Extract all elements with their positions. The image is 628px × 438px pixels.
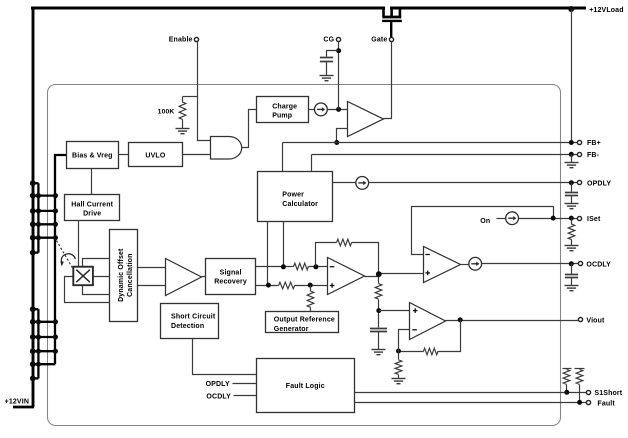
label U5 minus (425, 254, 430, 256)
terminal S1Short (586, 390, 590, 394)
svg-text:OCDLY: OCDLY (586, 262, 611, 269)
capacitor OCDLY (565, 275, 578, 278)
svg-text:FB+: FB+ (587, 140, 601, 147)
svg-text:OPDLY: OPDLY (206, 381, 230, 388)
hall plate ladder lower (32, 309, 56, 378)
label U6 minus (412, 329, 417, 331)
svg-text:Cancellation: Cancellation (127, 253, 134, 296)
svg-text:UVLO: UVLO (145, 152, 165, 159)
wire S1Short pullup bar (563, 368, 572, 370)
resistor R buffer gain (395, 360, 402, 374)
wire Charge Pump to source (309, 109, 315, 111)
wire +12V top rail right of MOSFET (390, 7, 586, 10)
svg-text:FB-: FB- (587, 152, 600, 159)
wire ref resistor to ORG (310, 308, 312, 312)
svg-text:Enable: Enable (169, 37, 193, 44)
resistor R feedback (337, 239, 352, 246)
wire OPDLY to Fault Logic (233, 383, 257, 385)
wire chopper phase D (65, 277, 111, 303)
wire driver lower input (337, 129, 348, 143)
capacitor OPDLY (565, 193, 578, 196)
junction Fault node (577, 400, 582, 405)
terminal FB- (577, 152, 581, 156)
wire buffer feedback down (438, 320, 461, 352)
wire Enable input (198, 42, 211, 141)
wire to error amp minus (309, 266, 328, 268)
wire +12V top rail left of MOSFET (31, 7, 385, 10)
wire OCDLY cap stub (571, 264, 573, 275)
junction ladder mid y=224.3 (36, 222, 41, 227)
wire divider mid stub (378, 300, 380, 328)
wire hall drive from Bias &amp; Vreg (55, 155, 66, 364)
block UVLO (129, 143, 183, 167)
block Hall Current Drive (65, 195, 120, 221)
wire CG down (338, 42, 340, 110)
ground ISet (565, 246, 579, 251)
junction minus node (313, 264, 318, 269)
label U5 plus (425, 271, 430, 276)
svg-text:Fault: Fault (597, 400, 615, 407)
junction ladder mid y=195.6 (36, 193, 41, 198)
junction ISet pin node (569, 216, 574, 221)
wire Gate to driver output (384, 42, 392, 119)
svg-text:Signal: Signal (220, 270, 242, 277)
wire divider to buffer plus (379, 310, 410, 312)
wire DOC out lower (138, 285, 166, 287)
svg-text:Viout: Viout (586, 318, 605, 325)
svg-text:Output Reference: Output Reference (274, 317, 335, 324)
wire PC bottom tap left (267, 222, 269, 286)
op-amp U5 OC comparator (424, 247, 461, 283)
op-amp U6 Viout buffer (410, 303, 446, 340)
svg-text:+12VLoad: +12VLoad (589, 7, 623, 14)
svg-text:Calculator: Calculator (282, 201, 318, 208)
wire PC bottom tap right (283, 222, 285, 267)
ground output filter (372, 350, 386, 355)
svg-text:Drive: Drive (83, 210, 101, 217)
svg-text:Pump: Pump (272, 113, 292, 120)
wire CG cap branch (327, 51, 339, 57)
wire error amp output (365, 277, 379, 284)
terminal CG (336, 37, 340, 41)
wire UVLO to AND (183, 154, 211, 156)
svg-text:Dynamic Offset: Dynamic Offset (118, 248, 125, 302)
wire +12VIN left bus (32, 7, 35, 407)
junction error output node (376, 271, 382, 277)
junction lower PC tap (266, 283, 271, 288)
svg-text:On: On (480, 218, 490, 225)
wire Fault line (355, 402, 587, 404)
block Output Reference Generator (266, 312, 339, 333)
wire chopper phase B (93, 276, 111, 278)
svg-text:S1Short: S1Short (594, 390, 622, 397)
mixer X1 chopper (73, 267, 93, 286)
junction divider mid (376, 308, 381, 313)
resistor R upper input (294, 263, 309, 270)
wire ISet resistor to ground (571, 240, 573, 246)
junction bus y=337.0 (30, 334, 36, 340)
ground under 100K (176, 129, 190, 134)
wire AND out to Charge Pump (242, 110, 257, 148)
junction bus y=351.2 (30, 348, 36, 354)
resistor R lower input (279, 282, 295, 289)
terminal Gate (389, 37, 393, 41)
wire fb node to minus input (399, 330, 410, 352)
junction ladder mid y=351.2 (36, 349, 41, 354)
junction buffer output (458, 317, 463, 322)
junction ladder mid y=337.0 (36, 334, 41, 339)
wire filter cap to ground (378, 332, 380, 350)
junction drive line y=210.9 (53, 208, 58, 213)
wire OCDLY to Fault Logic (234, 395, 257, 397)
resistor 100K (179, 102, 186, 119)
svg-text:Short Circuit: Short Circuit (171, 314, 216, 321)
wire +12VLoad sense drop (571, 10, 573, 143)
block Signal Recovery (206, 259, 256, 295)
junction plus node (308, 283, 313, 288)
wire Fault pullup stub (579, 385, 581, 403)
wire 100K top tie (183, 96, 198, 98)
op-amp U4 error amp (328, 258, 365, 295)
wire OCDLY cap to ground (571, 278, 573, 286)
wire chopper phase C (83, 286, 111, 295)
wire OPDLY line (369, 182, 578, 184)
resistor R reference (307, 291, 314, 307)
wire SCD to Fault Logic (193, 339, 257, 375)
junction drive line y=351.2 (53, 349, 58, 354)
wire comparator out (461, 264, 469, 266)
wire Fault pullup bar (575, 368, 585, 370)
wire S1Short pullup stub (566, 385, 568, 393)
wire comparator minus to ISet (412, 207, 554, 255)
junction bus y=183.2 (30, 180, 36, 186)
op-amp U3 preamp (166, 259, 202, 296)
current source OC delay (469, 257, 482, 270)
wire feedback left leg (316, 243, 337, 267)
ground OPDLY (565, 204, 579, 209)
junction bus y=252.6 (30, 250, 36, 256)
junction bus y=237.7 (30, 235, 36, 241)
svg-text:Power: Power (282, 191, 304, 198)
terminal Enable (194, 37, 198, 41)
junction driver input (336, 107, 341, 112)
block Power Calculator (258, 172, 333, 222)
resistor R divider top (375, 284, 382, 300)
op-amp U2 gate driver (348, 102, 384, 137)
junction FB+ to driver (334, 140, 339, 145)
wire OCDLY line (482, 263, 579, 265)
wire ref resistor stub (310, 286, 312, 292)
resistor R ISet (568, 224, 575, 239)
resistor R S1Short pullup (563, 369, 570, 384)
wire gain resistor stub (398, 352, 400, 360)
label U4 minus (330, 266, 335, 268)
wire preamp to Signal Recovery (202, 276, 206, 278)
wire CG cap to ground (326, 62, 328, 76)
hall plate ladder upper (32, 183, 56, 252)
svg-text:100K: 100K (158, 109, 175, 116)
block Short Circuit Detection (161, 304, 219, 339)
junction bus y=321.8 (30, 319, 36, 325)
capacitor CG (320, 58, 333, 62)
junction FB+ node (569, 140, 574, 145)
wire OPDLY cap stub (571, 183, 573, 192)
junction buffer fb node (396, 349, 401, 354)
wire Hall drive to chopper (78, 221, 80, 267)
svg-text:CG: CG (323, 37, 334, 44)
wire S1Short line (355, 392, 587, 394)
junction OPDLY node (569, 180, 574, 185)
junction FB- node (569, 152, 574, 157)
terminal OPDLY (577, 180, 581, 184)
wire FB+ tap into Power Calculator (282, 143, 284, 172)
svg-text:ISet: ISet (587, 216, 601, 223)
junction bus y=309.2 (30, 306, 36, 312)
wire feedback right leg (352, 243, 379, 274)
wire error out to comparator plus (379, 273, 424, 275)
wire FB- line (312, 154, 578, 156)
svg-text:OPDLY: OPDLY (587, 180, 611, 187)
junction upper PC tap (281, 264, 286, 269)
block Bias &amp; Vreg (67, 142, 119, 169)
wire buffer output (446, 320, 580, 322)
terminal ISet (577, 216, 581, 220)
ground buffer gain (392, 379, 406, 384)
terminal FB+ (577, 140, 581, 144)
wire PC to OPDLY source (333, 182, 356, 184)
resistor R buffer feedback (423, 348, 437, 355)
wire coupling dashed arrow (57, 241, 73, 269)
current source On (506, 212, 519, 225)
resistor R Fault pullup (576, 369, 583, 384)
wire FB- to ground (571, 155, 573, 163)
junction ladder mid y=364.2 (36, 362, 41, 367)
ground FB- (565, 163, 579, 168)
junction +12VLoad node (568, 6, 574, 12)
junction drive line y=337.0 (53, 334, 58, 339)
junction drive line y=237.7 (53, 235, 58, 240)
wire On source left stub (497, 218, 506, 220)
wire Bias to Hall Current Drive (91, 169, 93, 195)
wire 100K lower stub (182, 120, 184, 129)
junction bus y=378.4 (30, 376, 36, 382)
svg-text:Fault Logic: Fault Logic (286, 383, 325, 390)
junction drive line y=195.6 (53, 193, 58, 198)
wire to error amp plus (295, 285, 328, 287)
wire gain resistor to ground (398, 375, 400, 379)
arrow rotation arc (60, 254, 75, 267)
svg-text:Detection: Detection (171, 323, 204, 330)
wire feedback to minus node (399, 351, 424, 353)
wire ISet line (519, 218, 578, 220)
junction drive line y=224.3 (53, 222, 58, 227)
wire SR upper out (256, 266, 294, 268)
capacitor output filter (370, 329, 387, 332)
junction S1Short node (564, 390, 569, 395)
current source charge pump (315, 103, 328, 116)
junction ladder mid y=210.9 (36, 208, 41, 213)
label U4 plus (330, 283, 335, 288)
ground under CG cap (320, 76, 334, 81)
terminal Viout (578, 317, 582, 321)
junction ladder mid y=321.8 (36, 319, 41, 324)
terminal Fault (586, 400, 590, 404)
wire OPDLY cap to ground (571, 196, 573, 204)
block Dynamic Offset Cancellation (110, 230, 138, 322)
junction drive line y=321.8 (53, 319, 58, 324)
IC boundary (rounded) (48, 85, 561, 426)
gate U1 AND (211, 137, 242, 160)
svg-text:+12VIN: +12VIN (5, 399, 29, 406)
junction bus y=210.9 (30, 208, 36, 214)
svg-text:Bias & Vreg: Bias & Vreg (72, 152, 113, 159)
terminal OCDLY (578, 261, 582, 265)
wire +12VIN bottom entry (13, 406, 34, 409)
junction bus y=364.2 (30, 361, 36, 367)
block Fault Logic (257, 359, 355, 413)
wire FB+ line (283, 142, 578, 144)
label U6 plus (413, 308, 418, 313)
ground OCDLY (565, 286, 579, 291)
svg-text:OCDLY: OCDLY (206, 393, 231, 400)
svg-text:Hall Current: Hall Current (71, 201, 113, 208)
wire 100K upper stub (182, 97, 184, 103)
svg-text:Gate: Gate (371, 37, 387, 44)
wire FB- tap into Power Calculator (311, 155, 313, 172)
wire chopper phase A (83, 259, 111, 267)
wire SR lower out (256, 285, 279, 287)
current source power delay (356, 177, 369, 190)
wire source to driver input (328, 109, 348, 111)
transistor Q1 pass FET (382, 7, 402, 37)
junction bus y=224.3 (30, 221, 36, 227)
junction ladder mid y=237.7 (36, 235, 41, 240)
junction ISet On node (551, 216, 556, 221)
wire Bias to UVLO (119, 154, 129, 156)
wire DOC out upper (138, 267, 166, 269)
svg-text:Recovery: Recovery (214, 279, 247, 286)
junction CG branch (336, 48, 341, 53)
svg-text:Charge: Charge (272, 103, 297, 110)
junction OCDLY node (569, 261, 574, 266)
svg-text:Generator: Generator (274, 326, 309, 333)
junction bus y=195.6 (30, 193, 36, 199)
block Charge Pump (257, 97, 309, 123)
wire ISet resistor stub (571, 219, 573, 225)
